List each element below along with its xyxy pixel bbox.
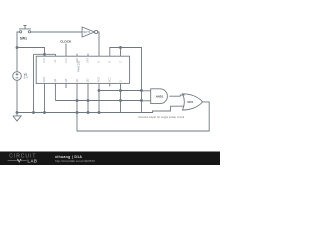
node junctions net y100.8 <box>76 100 78 102</box>
wire top stub pin x88 <box>87 54 89 56</box>
switch SW1 <box>19 25 31 32</box>
svg-text:74HC163: 74HC163 <box>76 60 80 72</box>
svg-text:RCO: RCO <box>98 77 101 82</box>
svg-text:NOT1: NOT1 <box>83 30 91 34</box>
node junctions net y90.8 <box>98 90 100 92</box>
svg-text:ENT: ENT <box>87 57 90 62</box>
svg-text:QC: QC <box>76 78 79 82</box>
svg-text:5 V: 5 V <box>24 76 28 80</box>
or-gate OR1 <box>183 94 203 110</box>
wire ground bottom rail y112.9 <box>17 112 142 114</box>
svg-text:D: D <box>119 80 122 82</box>
svg-text:QA: QA <box>54 78 57 82</box>
wire OR1 output feedback loop <box>77 102 209 131</box>
svg-text:C: C <box>119 61 122 63</box>
wire V1 bottom to ground rail <box>16 80 18 113</box>
wire bottom lead pin x77.1 <box>76 83 78 113</box>
svg-text:Inverted output for single pul: Inverted output for single pulser circui… <box>138 116 184 119</box>
footer logo symbol row <box>8 159 27 162</box>
wire top stub pin x77.1 <box>76 54 78 56</box>
op IC U1 counter box <box>36 56 129 83</box>
IC pin labels top row <box>43 57 122 62</box>
wire switch left terminal down left rail <box>17 32 20 72</box>
wire junction to IC pin CLR <box>17 48 45 57</box>
svg-text:LD: LD <box>54 59 57 62</box>
svg-text:http://circuitlab.com/c/4b9576: http://circuitlab.com/c/4b9576 <box>55 159 95 163</box>
wire bottom lead pin x44.4 to bottom rail <box>44 83 46 113</box>
svg-text:GND: GND <box>43 77 46 83</box>
wire AND input stubs <box>142 91 151 101</box>
wire left rail x33.4 down to bottom rail <box>33 54 35 113</box>
inverter NOT1 <box>82 27 98 37</box>
wire pin ENT stub <box>120 48 122 57</box>
footer bar <box>0 152 220 166</box>
wire net y47.7 top right <box>110 48 142 113</box>
wire CLOCK node to IC clk pin <box>65 44 67 57</box>
wire NOT1 output down to IC pin <box>98 32 99 56</box>
wire AND1 output to OR1 upper input <box>169 95 184 96</box>
and-gate AND1 <box>151 89 168 104</box>
wire bottom stub pin x66.2 <box>65 83 67 88</box>
wire bottom lead pin x98.9 <box>98 83 100 113</box>
svg-text:AND1: AND1 <box>156 94 164 98</box>
wire pin-row bus y54 <box>34 54 56 56</box>
node junctions bottom rail <box>16 112 18 114</box>
ground <box>13 113 21 122</box>
wire net y100.8 to AND1 <box>55 100 141 102</box>
wire switch right terminal to NOT1 input <box>31 31 83 33</box>
svg-text:VCC: VCC <box>109 77 112 82</box>
svg-text:LAB: LAB <box>27 158 37 163</box>
IC pin labels bottom row <box>43 77 122 83</box>
node junction on pin row wire <box>44 53 46 55</box>
node junction wire y47.7 at x120.7 <box>120 47 122 49</box>
svg-text:CLK: CLK <box>65 58 68 63</box>
node junction at switch rail y48 <box>16 47 18 49</box>
wire under AND to OR lower input <box>142 106 184 112</box>
wire net y90.8 to AND1 <box>99 90 142 92</box>
wire bottom lead pin x120.7 <box>120 83 122 113</box>
wire bottom lead pin x88 <box>87 83 89 113</box>
svg-text:CLR: CLR <box>43 58 46 63</box>
svg-text:CLOCK: CLOCK <box>60 39 72 43</box>
svg-text:QD: QD <box>87 78 90 82</box>
svg-text:OR1: OR1 <box>187 100 193 104</box>
voltage source V1 <box>13 72 22 81</box>
wire bottom stub pin x109.8 <box>109 83 111 86</box>
svg-text:SW1: SW1 <box>20 37 27 41</box>
wire bottom lead pin x55.3 to net y100.8 <box>54 83 56 100</box>
svg-text:QB: QB <box>65 78 68 82</box>
